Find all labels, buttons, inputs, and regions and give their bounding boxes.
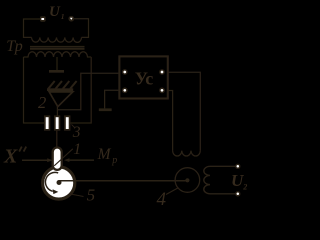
svg-text:4: 4 — [157, 189, 167, 210]
amplifier terminal in-bottom — [122, 87, 128, 93]
shaft disc (element 5) — [43, 167, 75, 199]
magnetizing winding on shaft — [173, 151, 201, 156]
support triangle (element 2) — [49, 92, 73, 107]
torsion shaft circle (element 4) — [175, 168, 200, 193]
wire secondary left lead down — [24, 57, 45, 123]
force arrow Mp (right) — [69, 159, 95, 161]
pointer line for label 3 — [72, 125, 76, 129]
output terminal top — [235, 164, 240, 169]
disc center dot — [57, 180, 62, 185]
pointer line for label 4 — [166, 188, 179, 195]
wire secondary right lead down — [70, 57, 91, 123]
wire amp out-bottom to shaft winding left — [168, 91, 173, 151]
double prime marks of X — [19, 147, 26, 152]
shaft circle center dot — [185, 178, 189, 182]
amplifier terminal in-top — [122, 69, 128, 75]
svg-text:3: 3 — [72, 124, 81, 141]
svg-text:1: 1 — [73, 141, 81, 158]
transformer Tp primary winding — [32, 37, 82, 42]
force arrow X (left) — [22, 159, 48, 161]
svg-text:5: 5 — [87, 185, 96, 204]
pickup coil — [204, 166, 238, 194]
rod element 1 (capsule) — [53, 148, 62, 170]
rotation arrow inside disc — [45, 172, 58, 191]
quartz plate 3a — [44, 115, 50, 130]
quartz plate 3c — [64, 115, 70, 130]
transformer core line 2 — [30, 48, 85, 50]
svg-text:1: 1 — [61, 12, 65, 21]
output terminal bottom — [235, 191, 240, 196]
amplifier box Us — [119, 56, 167, 98]
svg-text:X: X — [3, 146, 18, 168]
wire top-right from terminal to primary winding — [74, 19, 89, 38]
wire amp out-top to shaft winding right — [168, 72, 201, 150]
transformer core line 1 — [30, 46, 85, 48]
svg-text:Тр: Тр — [6, 38, 23, 55]
quartz plate 3b — [54, 115, 60, 130]
support hatch bar — [47, 88, 73, 91]
amplifier terminal out-top — [159, 69, 165, 75]
wire apex junction to amplifier input — [57, 73, 119, 110]
svg-text:Ус: Ус — [135, 68, 153, 88]
wire stack to rod 1 — [56, 131, 58, 149]
input terminal left — [40, 16, 46, 21]
shaft wire disc to torsion circle — [59, 180, 188, 182]
input terminal right — [68, 16, 74, 22]
ground wire from amplifier — [105, 90, 120, 108]
wire triangle apex to quartz stack — [56, 107, 58, 116]
transformer Tp secondary winding — [24, 52, 92, 57]
svg-text:U: U — [49, 4, 61, 20]
support hatching ticks — [48, 81, 76, 89]
svg-text:M: M — [97, 146, 112, 163]
center tap electrode bar — [49, 70, 64, 73]
ground bar — [99, 108, 112, 111]
wire top-left from terminal to primary winding — [24, 19, 41, 37]
pointer line for label 5 — [69, 194, 84, 197]
svg-text:U: U — [231, 171, 244, 190]
amplifier terminal out-bottom — [159, 87, 165, 93]
svg-text:2: 2 — [38, 93, 46, 112]
pointer line for label 1 — [54, 149, 73, 166]
center tap wire — [56, 57, 58, 70]
svg-text:р: р — [111, 155, 117, 166]
svg-text:2: 2 — [242, 183, 247, 192]
